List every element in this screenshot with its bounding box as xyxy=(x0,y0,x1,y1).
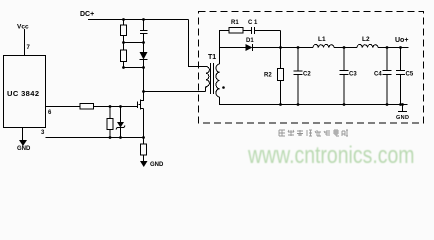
svg-text:R2: R2 xyxy=(264,73,272,79)
wire pin 6 output xyxy=(46,106,138,108)
caption text (pseudo CJK glyphs) xyxy=(279,130,348,136)
node gate wire / zener top xyxy=(119,105,122,108)
node source-sense xyxy=(142,136,145,139)
capacitor C2 xyxy=(294,48,303,105)
svg-text:C3: C3 xyxy=(349,72,357,78)
node C3 bottom xyxy=(343,103,346,106)
svg-text:Vcc: Vcc xyxy=(17,24,29,31)
wire drain to primary xyxy=(144,91,206,93)
wire startup column x=123 xyxy=(123,20,125,68)
wire C1 to node xyxy=(255,30,281,32)
svg-text:www.cntronics.com: www.cntronics.com xyxy=(247,142,414,169)
wire D1 to L1 xyxy=(253,47,314,49)
diode D1 xyxy=(252,44,254,51)
node output ground tap xyxy=(401,103,404,106)
svg-text:T1: T1 xyxy=(208,54,216,61)
capacitor C3 xyxy=(340,48,349,105)
node gate wire / resistor top xyxy=(109,105,112,108)
wire pin 3 sense xyxy=(46,137,144,139)
wire pin5 to ground xyxy=(22,128,24,141)
ground (current sense) xyxy=(140,161,148,167)
node rail-R startup xyxy=(122,18,125,21)
resistor (startup lower) xyxy=(121,50,127,62)
transformer T1 core xyxy=(211,63,214,94)
resistor (gate drive) xyxy=(80,104,94,110)
node C4 top xyxy=(386,46,389,49)
node C5 top xyxy=(399,46,402,49)
resistor (under pin6 wire) xyxy=(109,107,111,119)
transformer T1 primary winding xyxy=(206,67,210,92)
node rail-C snubber xyxy=(142,18,145,21)
transistor Q1 mosfet xyxy=(138,100,144,138)
capacitor C1 xyxy=(252,27,255,34)
ground terminal of output xyxy=(398,105,407,112)
node startup mid left xyxy=(122,41,125,44)
node sense wire / resistor bottom xyxy=(109,136,112,139)
op-amp U1 (PWM controller UC3842 box) xyxy=(4,56,46,128)
ground (under chip) xyxy=(19,140,27,146)
wire snubber column x=143 xyxy=(143,20,145,102)
node C4 bottom xyxy=(386,103,389,106)
node C3 top xyxy=(343,46,346,49)
node startup bottom left xyxy=(122,66,125,69)
capacitor C4 xyxy=(383,48,392,105)
svg-text:DC+: DC+ xyxy=(80,11,94,18)
wire R1 to C1 xyxy=(243,30,251,32)
dashed filter box xyxy=(199,12,424,124)
zener diode body xyxy=(117,122,124,128)
zener diode (under pin6 wire) xyxy=(120,107,122,138)
wire L2 to output xyxy=(378,47,409,49)
resistor (startup upper) xyxy=(121,25,127,36)
svg-text:UC 3842: UC 3842 xyxy=(7,89,39,98)
node C5 bottom xyxy=(399,103,402,106)
wire DC+ rail xyxy=(88,19,189,21)
wire connector y=67 xyxy=(124,67,144,69)
node R2 bottom xyxy=(279,103,282,106)
wire Vcc to pin 7 xyxy=(24,29,26,56)
svg-text:GND: GND xyxy=(396,115,409,121)
svg-text:GND: GND xyxy=(17,146,31,152)
node snubber mid right xyxy=(142,41,145,44)
capacitor (snubber top) xyxy=(140,31,148,34)
capacitor C5 xyxy=(396,48,405,105)
diode D1 body xyxy=(246,44,253,51)
wire snubber branch join xyxy=(280,31,282,48)
resistor R2 xyxy=(280,48,282,69)
resistor R1 xyxy=(229,28,243,34)
wire secondary top lead xyxy=(220,31,230,65)
svg-text:L1: L1 xyxy=(318,36,326,43)
svg-text:C5: C5 xyxy=(406,72,414,78)
inductor L2 xyxy=(357,44,378,47)
wire secondary bottom lead / output return rail xyxy=(220,97,408,105)
node drain-primary xyxy=(142,90,145,93)
svg-text:C 1: C 1 xyxy=(248,20,258,26)
transformer T1 secondary winding xyxy=(216,64,220,97)
inductor L1 xyxy=(313,44,334,47)
wire rail to transformer primary xyxy=(189,20,207,67)
node sense wire / zener bottom xyxy=(119,136,122,139)
svg-text:D1: D1 xyxy=(246,38,254,44)
svg-text:C4: C4 xyxy=(374,72,382,78)
svg-text:GND: GND xyxy=(150,162,164,168)
node C2 top xyxy=(297,46,300,49)
diode (snubber, pointing down) xyxy=(140,52,148,60)
svg-text:R1: R1 xyxy=(231,20,239,26)
svg-text:C2: C2 xyxy=(303,72,311,78)
wire connector y=42 xyxy=(124,42,144,44)
wire L1 to L2 xyxy=(334,47,357,49)
svg-text:Uo+: Uo+ xyxy=(395,37,408,44)
resistor (current sense) xyxy=(143,138,145,145)
node snubber join / R2 top xyxy=(279,46,282,49)
node C2 bottom xyxy=(297,103,300,106)
node snubber bottom right xyxy=(142,66,145,69)
svg-text:L2: L2 xyxy=(362,36,370,43)
wire D1 anode branch xyxy=(220,47,246,49)
node phase dot (transformer) xyxy=(222,86,225,89)
